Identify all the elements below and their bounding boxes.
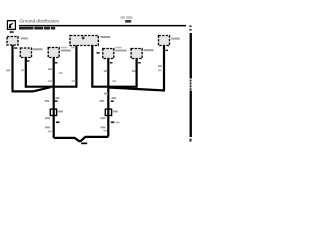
pin tick G xyxy=(138,62,141,64)
component box C xyxy=(48,48,59,58)
right margin vertical text in bar gap xyxy=(190,80,192,91)
right margin tiny marks above bar xyxy=(189,25,191,30)
pin tick F xyxy=(165,50,168,52)
label of B xyxy=(33,48,43,50)
pin tick B xyxy=(27,60,30,62)
wire color label left of wire A xyxy=(6,70,10,72)
header chapter icon xyxy=(7,20,16,33)
label right of wire E xyxy=(112,97,117,99)
pin tick right of wire E below connector xyxy=(111,121,115,123)
wire color label left of wire C xyxy=(48,68,52,70)
right margin tiny mark below bar xyxy=(189,139,191,142)
label left of wire E below junction xyxy=(104,93,108,95)
component box A xyxy=(7,37,18,46)
label of D xyxy=(100,36,110,38)
label left of wire C above connector xyxy=(45,100,50,102)
svg-text:Ground distribution: Ground distribution xyxy=(20,19,60,24)
wire color label left of wire F xyxy=(158,65,162,67)
pin tick right of wire C xyxy=(55,100,58,102)
lower bus left segment from A with diagonal to junction xyxy=(12,87,51,91)
wire from C down through buses to bottom bus xyxy=(53,58,55,138)
pin tick C xyxy=(55,62,58,64)
pin tick right of wire E xyxy=(111,100,114,102)
bottom bus left segment into ground dip xyxy=(54,138,80,142)
page label 500 light xyxy=(121,16,133,19)
top bus left segment (B to D-left, crossing C) xyxy=(25,86,77,88)
wire from E down through buses to bottom bus xyxy=(107,59,109,137)
right margin border bar lower segment xyxy=(190,91,192,138)
component box B xyxy=(20,48,31,58)
label left of wire C lower xyxy=(45,127,50,129)
bottom bus right segment from ground dip xyxy=(80,137,108,142)
wire color label left of D left wire xyxy=(72,80,76,82)
wire from B down to top bus xyxy=(25,58,27,88)
header subtitle text blocks xyxy=(19,27,55,30)
wire color label right of wire C xyxy=(59,72,63,74)
label of G xyxy=(144,49,154,51)
faint label above right bus xyxy=(112,80,116,82)
label of E line 2 xyxy=(115,50,127,52)
label of F xyxy=(171,38,180,40)
right margin border bar upper segment xyxy=(190,33,192,79)
label of E line 1 xyxy=(115,47,122,49)
wire color label left of wire F lower xyxy=(158,70,161,72)
label of C line 2 xyxy=(61,50,71,52)
pin tick E xyxy=(110,62,113,64)
label of A xyxy=(21,37,28,39)
component box E xyxy=(103,49,114,59)
header rule xyxy=(19,25,186,27)
inline connector on left descender xyxy=(50,109,56,115)
wire from D right pin to top bus xyxy=(91,46,93,88)
label left of wire E above connector xyxy=(100,100,105,102)
wire color label left of wire B xyxy=(21,69,25,71)
lower bus right segment from F with diagonal to junction xyxy=(109,88,165,91)
faint label left of D left wire top xyxy=(71,47,74,49)
wire from F down to lower bus xyxy=(163,46,165,91)
inline connector on right descender xyxy=(105,109,111,115)
label above right bottom corner xyxy=(103,130,107,132)
page label 500 dark xyxy=(125,20,131,23)
component box G xyxy=(131,49,142,59)
wire color label left of wire C lower xyxy=(48,80,52,82)
label above left bottom corner xyxy=(48,131,52,133)
ground tick xyxy=(81,143,87,145)
wire color label left of wire G xyxy=(132,70,136,72)
pin tick right of wire C below connector xyxy=(56,121,60,123)
label left of wire E below connector xyxy=(101,117,106,119)
top bus right segment (D-right to G, crossing E) xyxy=(91,86,137,88)
label right of tick wire E xyxy=(116,122,120,124)
pin tick A xyxy=(14,47,17,49)
pin tick D right xyxy=(96,52,99,54)
component box F xyxy=(159,36,170,46)
label left of wire E lower xyxy=(101,127,106,129)
wire from A down to lower bus xyxy=(11,45,13,91)
wire color label left of wire E xyxy=(104,70,108,72)
label right of wire C below junction xyxy=(56,97,60,99)
label of C line 1 xyxy=(61,47,68,49)
label of left connector xyxy=(58,111,63,113)
label left of wire C below connector xyxy=(45,117,50,119)
wire from D left pin to top bus xyxy=(75,46,77,88)
label of right connector xyxy=(113,111,118,113)
wire from G down to top bus xyxy=(136,59,138,88)
component box D (wide, with ground stud) xyxy=(70,36,98,46)
